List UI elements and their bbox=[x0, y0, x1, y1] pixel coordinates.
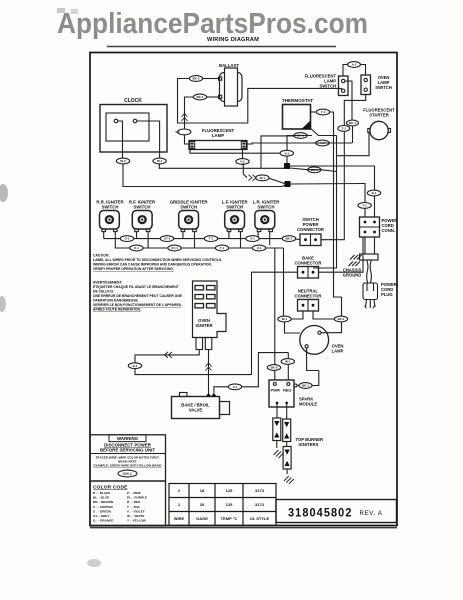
bake broil valve VB1 bbox=[172, 397, 220, 419]
wire lamp right pin2 to L_b bbox=[247, 143, 352, 144]
valve top tab bbox=[180, 393, 188, 397]
svg-text:EXAMPLE: GREEN WIRE WITH YELLO: EXAMPLE: GREEN WIRE WITH YELLOW BRAID bbox=[93, 464, 162, 468]
wire lamp left cap down to V-1 bus bbox=[190, 150, 280, 154]
svg-text:DE CELUI-CI.: DE CELUI-CI. bbox=[93, 290, 114, 294]
svg-text:THERMOSTAT: THERMOSTAT bbox=[282, 98, 313, 103]
svg-text:COLOR CODE: COLOR CODE bbox=[93, 485, 128, 491]
connector oval W-1 oven bbox=[278, 316, 291, 322]
svg-text:SWITCH: SWITCH bbox=[226, 205, 243, 210]
ballast terminal top bbox=[219, 77, 222, 80]
connector oval BK-2 spark bbox=[267, 365, 280, 371]
connector oval G/Y-1 bbox=[118, 470, 137, 477]
wire BK oval down to lamp terminal bbox=[321, 322, 342, 333]
color code box bbox=[90, 481, 166, 526]
wire vertical bus V336 bbox=[313, 136, 337, 269]
svg-text:20: 20 bbox=[200, 502, 205, 507]
oven lamp L2 bbox=[300, 326, 329, 355]
wire W-1 down to lamp bbox=[285, 322, 301, 333]
svg-text:SWITCH: SWITCH bbox=[180, 205, 197, 210]
wire valve t2 up to oval V-1 bbox=[214, 387, 229, 393]
svg-text:REV. A: REV. A bbox=[360, 510, 383, 517]
svg-text:125: 125 bbox=[226, 502, 233, 507]
svg-text:SWITCH: SWITCH bbox=[134, 205, 151, 210]
connector ovals row2 bbox=[130, 245, 143, 251]
svg-text:IGNITERS: IGNITERS bbox=[299, 442, 319, 447]
wire L_a left to V-1 riser bbox=[287, 136, 312, 151]
svg-text:T-1: T-1 bbox=[209, 237, 214, 241]
wire BK oval up to h297 bbox=[341, 297, 343, 316]
ballast B1 flange bbox=[220, 73, 243, 102]
svg-text:BK-1: BK-1 bbox=[297, 134, 304, 138]
wire B-1 down to power cord conn bbox=[374, 196, 376, 217]
svg-text:B-1: B-1 bbox=[372, 191, 377, 195]
svg-text:MODULE: MODULE bbox=[299, 402, 317, 407]
connector ovals row1 bbox=[120, 236, 133, 242]
wire J1 to right riser bbox=[290, 166, 375, 190]
border bottom emphasis bbox=[90, 527, 397, 529]
switch power connector CN1 bbox=[300, 234, 321, 246]
wire Y-1 down to power cord conn bbox=[364, 208, 366, 217]
clock terminal 2 bbox=[133, 119, 137, 123]
wire A-1 to fluorescent lamp switch bbox=[343, 65, 348, 77]
clock terminal 1 bbox=[114, 119, 118, 123]
svg-text:BK-1: BK-1 bbox=[349, 121, 356, 125]
top burner igniter G2 bbox=[283, 419, 291, 442]
svg-text:UNE ERREUR DE BRANCHEMENT PEUT: UNE ERREUR DE BRANCHEMENT PEUT CAUSER UN… bbox=[93, 294, 183, 298]
connector oval W-1 bbox=[153, 158, 166, 164]
warning box bbox=[90, 435, 166, 481]
svg-text:T-1: T-1 bbox=[220, 246, 225, 250]
svg-text:UL STYLE: UL STYLE bbox=[250, 516, 270, 521]
wire right prong down to valve bbox=[208, 350, 210, 394]
igniter switch S1 bbox=[100, 211, 120, 232]
svg-text:PLUG: PLUG bbox=[381, 292, 393, 297]
svg-text:BK-2: BK-2 bbox=[192, 77, 199, 81]
svg-text:VALVE: VALVE bbox=[189, 408, 203, 413]
wire spark right to oval bbox=[297, 385, 299, 387]
connector oval Y-1 lower bbox=[358, 203, 371, 209]
connector oval BK-1 oven bbox=[334, 316, 347, 322]
arrow up chevrons on drop bbox=[182, 114, 188, 122]
svg-text:O-1: O-1 bbox=[124, 237, 129, 241]
svg-text:GAGE: GAGE bbox=[196, 516, 208, 521]
junction J1 bbox=[284, 163, 290, 169]
arrow chevrons left bbox=[165, 352, 173, 358]
wire ballast top to oval bbox=[203, 78, 219, 80]
power cord connector CN2 bbox=[360, 217, 380, 237]
connector oval W-2 bbox=[116, 158, 129, 164]
igniter switch S4 bbox=[225, 211, 245, 232]
svg-text:Y . -YELLOW: Y . -YELLOW bbox=[127, 519, 146, 523]
wire G3 ground bbox=[286, 469, 288, 474]
spark module right terminal bbox=[294, 384, 297, 387]
svg-text:CONNECTOR: CONNECTOR bbox=[295, 294, 322, 299]
svg-text:STARTER: STARTER bbox=[369, 113, 388, 118]
connector oval W-1 lineB bbox=[256, 175, 269, 181]
svg-text:18: 18 bbox=[200, 488, 205, 493]
connector oval V-1 drop bbox=[178, 129, 191, 135]
clock K1 inner bbox=[106, 113, 149, 141]
svg-text:V . - VIOLET: V . - VIOLET bbox=[127, 509, 145, 513]
top burner igniter G1 bbox=[273, 418, 281, 441]
svg-text:BALLAST: BALLAST bbox=[219, 63, 239, 68]
wire S7 bottom down to T-1 riser bbox=[344, 95, 365, 126]
scan smudge left 2 bbox=[0, 296, 6, 312]
svg-text:WARNING: WARNING bbox=[117, 436, 139, 441]
svg-text:O . - ORANGE: O . - ORANGE bbox=[93, 519, 113, 523]
svg-text:WIRE: WIRE bbox=[174, 516, 185, 521]
wire V-1 oval diagonal to arrow line bbox=[243, 163, 247, 178]
svg-text:BL. - BLUE: BL. - BLUE bbox=[93, 496, 109, 500]
scan smudge top left 2 bbox=[71, 9, 78, 14]
svg-text:318045802: 318045802 bbox=[288, 506, 353, 520]
connector oval BK-1 diag bbox=[308, 167, 321, 173]
ballast terminal bottom bbox=[219, 95, 222, 98]
svg-text:CONNECTOR: CONNECTOR bbox=[297, 227, 324, 232]
svg-text:T . - TAN: T . - TAN bbox=[127, 505, 140, 509]
wire spark neu riser bbox=[287, 364, 289, 380]
igniter switch S2 bbox=[132, 211, 152, 232]
connector oval A-1 top bbox=[348, 62, 361, 68]
svg-text:NEU: NEU bbox=[283, 388, 292, 393]
svg-text:V-1: V-1 bbox=[257, 246, 262, 250]
wire BK-2 to spark bbox=[274, 370, 276, 380]
wire table bbox=[169, 484, 276, 526]
connector oval V-1 below lamp bbox=[236, 159, 249, 165]
svg-text:SWITCH: SWITCH bbox=[102, 205, 119, 210]
wire CN2 bottom to strain bar bbox=[364, 237, 366, 254]
svg-text:APRES TOUTE REPARATION.: APRES TOUTE REPARATION. bbox=[93, 308, 141, 312]
connector oval V-2 bbox=[316, 140, 329, 146]
svg-text:AppliancePartsPros.com: AppliancePartsPros.com bbox=[57, 8, 368, 40]
svg-text:BK-1: BK-1 bbox=[337, 317, 344, 321]
wire clock oval2 to junction J1 bbox=[159, 164, 287, 168]
svg-text:VERIFIER LE BON FONCTIONNEMENT: VERIFIER LE BON FONCTIONNEMENT DE L'APPA… bbox=[93, 303, 182, 307]
connector oval B-1 bbox=[367, 190, 380, 196]
svg-text:W-1: W-1 bbox=[282, 317, 288, 321]
wire oval up riser318 bbox=[312, 371, 319, 386]
lamp right cap bbox=[241, 142, 246, 149]
svg-text:V-1: V-1 bbox=[175, 130, 180, 134]
scan smudge left 1 bbox=[0, 184, 8, 202]
wire J1 diagonal through BK-1 to v333 bbox=[290, 168, 337, 172]
wire S6 top terminal right riser bbox=[345, 81, 352, 120]
wire T-1 long vertical down to switch power connector bbox=[321, 131, 344, 239]
svg-text:SWITCH: SWITCH bbox=[375, 85, 392, 90]
svg-text:GY. - GREY: GY. - GREY bbox=[93, 514, 110, 518]
wire oval to J2 bbox=[269, 178, 285, 183]
connector oval BK-1 right bbox=[347, 120, 359, 126]
svg-text:OPERATION DANGEREUSE.: OPERATION DANGEREUSE. bbox=[93, 299, 139, 303]
svg-text:CLOCK: CLOCK bbox=[124, 98, 142, 104]
arrow up chevrons igniter bbox=[206, 363, 212, 371]
svg-text:WIRING DIAGRAM: WIRING DIAGRAM bbox=[207, 37, 259, 43]
wire neutral left down to W-1 oval bbox=[291, 311, 303, 319]
svg-text:W-1: W-1 bbox=[260, 176, 266, 180]
connector oval V-1 mid bbox=[280, 150, 293, 156]
valve side tab bbox=[220, 402, 230, 415]
connector oval BK-2 bbox=[189, 76, 202, 82]
connector oval BK-1 spark right bbox=[299, 383, 312, 389]
valve terminal triangles bbox=[206, 393, 217, 397]
svg-text:LABEL ALL WIRES PRIOR TO DISCO: LABEL ALL WIRES PRIOR TO DISCONNECTION W… bbox=[93, 258, 222, 262]
part number box bbox=[276, 500, 397, 523]
svg-text:G/Y-1: G/Y-1 bbox=[123, 472, 132, 476]
clock K1 outer bbox=[100, 105, 167, 153]
connector oval BK-1 on L_a bbox=[294, 133, 307, 139]
svg-text:WIRING ERROR CAN CAUSE IMPROPE: WIRING ERROR CAN CAUSE IMPROPER AND DANG… bbox=[93, 263, 212, 267]
svg-text:LAMP: LAMP bbox=[332, 349, 344, 354]
wire G2 to G3 bbox=[286, 442, 288, 447]
connector oval V-1 valve bbox=[228, 384, 241, 390]
wire V-1 to J1 bbox=[286, 156, 288, 163]
wire clock t1 to oval W-2 bbox=[118, 121, 123, 158]
wire row1 bus bbox=[104, 239, 300, 240]
neutral connector CN4 bbox=[298, 300, 319, 312]
connector oval B-1 left bbox=[128, 363, 141, 369]
svg-text:CAUTION:: CAUTION: bbox=[93, 254, 110, 258]
wire W-1 oval up to row2 bus bbox=[283, 248, 285, 316]
svg-text:GY-1: GY-1 bbox=[164, 237, 171, 241]
svg-text:BK-2: BK-2 bbox=[270, 366, 277, 370]
svg-text:VERIFY PROPER OPERATION AFTER: VERIFY PROPER OPERATION AFTER SERVICING. bbox=[93, 267, 174, 271]
starter right nub bbox=[388, 129, 390, 133]
svg-text:V-1: V-1 bbox=[240, 160, 245, 164]
svg-text:R . - RED: R . - RED bbox=[127, 500, 141, 504]
wire J2 to v365 bbox=[291, 184, 366, 203]
wire oval to lamp left cap bbox=[185, 135, 190, 144]
lamp left cap bbox=[190, 142, 195, 149]
wire A-1 to oven lamp switch bbox=[361, 65, 366, 76]
svg-text:PL. - PURPLE: PL. - PURPLE bbox=[127, 496, 147, 500]
wire ballast bottom to oval bbox=[207, 96, 219, 98]
power cord twisted pair bbox=[367, 260, 372, 283]
svg-text:1: 1 bbox=[178, 502, 181, 507]
igniter switch S3 bbox=[179, 211, 199, 232]
svg-text:PWR: PWR bbox=[271, 388, 280, 393]
wire left prong to left bend bbox=[135, 350, 199, 363]
wire starter left nub down bbox=[337, 133, 370, 156]
scan smudge bottom bbox=[87, 559, 101, 567]
svg-text:BK-1: BK-1 bbox=[196, 95, 203, 99]
svg-text:B . - BLACK: B . - BLACK bbox=[93, 491, 111, 495]
wire B-1 down to bus374 bbox=[135, 369, 252, 375]
fluorescent lamp switch S6 bbox=[339, 76, 349, 96]
wire lamp right cap down to V-1 oval bbox=[242, 150, 244, 159]
svg-text:W-1: W-1 bbox=[157, 159, 163, 163]
wire bake left long to valve riser bbox=[252, 272, 298, 374]
wire clock t2 bbox=[137, 121, 160, 158]
wire L_a to v261 bbox=[261, 136, 294, 168]
svg-text:V-1: V-1 bbox=[233, 385, 238, 389]
bake connector CN3 bbox=[298, 267, 319, 279]
oven igniter slots bbox=[195, 286, 204, 290]
plug prongs bbox=[366, 300, 376, 309]
oven igniter prongs bbox=[196, 338, 203, 350]
wire clock oval1 to junction J2 bbox=[123, 164, 288, 187]
svg-text:B-1: B-1 bbox=[133, 364, 138, 368]
svg-text:LAMP: LAMP bbox=[212, 133, 224, 138]
svg-text:3173: 3173 bbox=[255, 488, 265, 493]
igniter switch S5 bbox=[255, 211, 275, 232]
svg-text:BK-1: BK-1 bbox=[285, 237, 292, 241]
wire oval to lamp cap drop bbox=[185, 97, 194, 129]
arrow chevrons right on line B bbox=[249, 175, 257, 181]
starter left nub bbox=[368, 129, 370, 133]
title underline bbox=[107, 46, 336, 48]
thermostat wedge bbox=[302, 121, 311, 130]
svg-text:CONN.: CONN. bbox=[382, 228, 396, 233]
wire row2 bus bbox=[103, 232, 105, 239]
wire Y-1 to vertical bus V333 bbox=[330, 112, 342, 297]
connector oval Y-1 bbox=[316, 109, 329, 115]
svg-text:O-1: O-1 bbox=[134, 246, 139, 250]
spark module SM1 bbox=[269, 380, 294, 407]
svg-text:Y-1: Y-1 bbox=[321, 110, 326, 114]
svg-text:V-1: V-1 bbox=[285, 151, 290, 155]
wire lamp bottom terminal down bbox=[307, 348, 319, 371]
svg-text:AVERTISSEMENT:: AVERTISSEMENT: bbox=[93, 281, 123, 285]
svg-text:A-1: A-1 bbox=[352, 63, 357, 67]
svg-text:W-2: W-2 bbox=[120, 159, 126, 163]
svg-text:C . - COPPER: C . - COPPER bbox=[93, 505, 114, 509]
fluorescent starter ST1 bbox=[370, 121, 388, 139]
svg-text:CONNECTOR: CONNECTOR bbox=[295, 261, 322, 266]
wire thermostat wedge diagonal to L_a bbox=[309, 127, 337, 136]
svg-text:W . - WHITE: W . - WHITE bbox=[127, 514, 144, 518]
svg-text:SWITCH: SWITCH bbox=[319, 84, 336, 89]
svg-text:BK-1: BK-1 bbox=[302, 384, 309, 388]
wire oval right to riser238 bbox=[242, 353, 289, 387]
wire G1 ground bbox=[276, 441, 278, 449]
top burner igniter G3 bbox=[283, 447, 291, 470]
svg-text:V-1: V-1 bbox=[250, 237, 255, 241]
svg-text:V-2: V-2 bbox=[320, 141, 325, 145]
svg-text:BK-1: BK-1 bbox=[311, 168, 318, 172]
ballast B1 body bbox=[225, 68, 238, 106]
wire bake right up to CN2 bbox=[319, 237, 364, 272]
svg-text:G . - GREEN: G . - GREEN bbox=[93, 509, 112, 513]
wire thermostat to Y-1 oval bbox=[311, 111, 317, 113]
svg-text:SWITCH: SWITCH bbox=[258, 205, 275, 210]
fluorescent lamp FL1 tube bbox=[189, 141, 247, 150]
svg-text:IGNITER: IGNITER bbox=[196, 323, 213, 328]
junction J2 bbox=[285, 181, 291, 187]
connector oval T-1 bbox=[338, 125, 350, 131]
svg-text:BEFORE SERVICING UNIT: BEFORE SERVICING UNIT bbox=[100, 448, 155, 453]
svg-text:125: 125 bbox=[226, 488, 233, 493]
border frame bbox=[90, 53, 397, 526]
wire oval to loop via v177 h123 v247 h88 bbox=[178, 79, 342, 124]
wire row1 stub drops bbox=[136, 232, 138, 239]
svg-text:P . - PINK: P . - PINK bbox=[127, 491, 142, 495]
oven lamp switch S7 bbox=[361, 75, 371, 95]
thermostat TH1 box bbox=[283, 105, 311, 130]
svg-text:GROUND: GROUND bbox=[343, 273, 362, 278]
chassis ground symbol bbox=[349, 255, 362, 266]
wire neutral right to BK oval bbox=[313, 311, 334, 319]
wire spark bottom to igniters bbox=[276, 404, 278, 418]
svg-text:BR. - BROWN: BR. - BROWN bbox=[93, 500, 114, 504]
svg-text:TEMP °C: TEMP °C bbox=[221, 516, 238, 521]
wire oval to L_b join bbox=[352, 126, 354, 143]
connector oval W-1 spark bbox=[281, 359, 294, 365]
scan smudge top left bbox=[57, 8, 65, 13]
power cord plug bbox=[363, 283, 378, 300]
svg-text:W-1: W-1 bbox=[285, 360, 291, 364]
svg-text:3173: 3173 bbox=[255, 502, 265, 507]
oven igniter body bbox=[193, 281, 227, 338]
svg-text:GY-1: GY-1 bbox=[171, 246, 178, 250]
svg-text:2: 2 bbox=[178, 488, 181, 493]
svg-text:Y-1: Y-1 bbox=[362, 204, 367, 208]
svg-text:T-1: T-1 bbox=[342, 127, 347, 131]
svg-text:ETIQUETER CHAQUE FIL AVANT LE: ETIQUETER CHAQUE FIL AVANT LE BRANCHEMEN… bbox=[93, 285, 180, 289]
wire W-1 up to lamp bottom bbox=[287, 353, 289, 359]
strain relief bar bbox=[360, 254, 379, 260]
wire row2 stub drops bbox=[147, 232, 149, 249]
connector oval BK-1 bbox=[193, 94, 206, 100]
